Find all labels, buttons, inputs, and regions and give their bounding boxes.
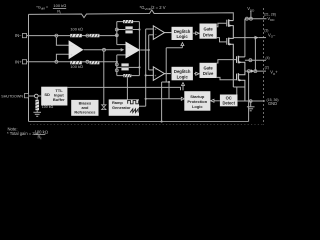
wire out+ feedback sense [162,82,169,122]
svg-text:100 kΩ: 100 kΩ [70,64,83,69]
wire bottom feedback rail [29,121,249,123]
svg-text:(4): (4) [266,56,270,60]
wire control riser to deglitch1 [166,46,182,99]
op-amp U1 input stage (filled) [69,40,84,59]
svg-text:VDD: VDD [247,6,255,12]
wire startup to deglitch2 arrow [182,86,184,91]
svg-text:−: − [70,43,73,48]
svg-text:Logic: Logic [192,104,203,109]
wire OC to startup + arrow [214,100,220,102]
boundary dashed bottom [30,124,264,126]
svg-text:SD: SD [44,92,50,97]
resistor R feedback top [123,20,133,23]
resistor rowC R1 [70,61,82,64]
icon sawtooth wave [130,109,138,113]
svg-text:100 kΩ: 100 kΩ [53,3,66,8]
arrowhead OUT- pin [255,36,259,40]
transistor Q1 high-side [227,19,234,37]
boundary dashed right [263,8,265,125]
block Startup Protection Logic [184,91,210,111]
wire OC sense bracket [233,87,245,95]
node circles feedback bottom riser [115,63,118,66]
arrowhead into U2 [121,48,125,51]
transistor Q3 high-side [237,56,245,71]
wire top feedback rail with notch and hop [29,10,234,21]
wire PVCC rail [245,11,267,57]
FET source arrows [229,24,242,81]
comparator C1 [153,26,171,40]
svg-text:+: + [70,52,73,57]
svg-text:GND: GND [268,101,277,106]
wire ramp to comparators [139,29,153,106]
svg-text:Logic: Logic [177,34,189,39]
resistor rowB R2 [90,34,100,37]
formula gain top-left [36,3,66,15]
resistor rowB R1 [70,34,82,37]
resistor SD pulldown [35,98,39,113]
inverter bubble SD [35,94,39,98]
ground symbol SD [33,112,41,116]
wire OC to GND pin [238,100,266,102]
svg-text:VO+: VO+ [270,70,278,76]
svg-text:Logic: Logic [177,74,189,79]
transistor Q2 low-side [227,38,234,87]
block Deglitch Logic 1 [172,27,193,40]
svg-text:Drive: Drive [203,32,214,37]
icon square wave [128,100,139,103]
wire bottom riser to OUT+ [248,71,250,121]
block Ramp Generator [109,99,139,115]
svg-text:100 kΩ: 100 kΩ [42,105,54,109]
svg-text:100 kΩ: 100 kΩ [70,27,83,32]
wire bias tap vertical from U1 output [103,51,105,104]
pin IN+ [22,60,26,64]
pin IN- [22,34,26,38]
wire left boundary vertical [28,14,30,121]
transistor Q4 low-side [237,71,245,101]
hourglass connector biases-ramp [102,105,106,107]
svg-text:+: + [154,28,156,32]
svg-text:+: + [154,74,156,78]
resistor R feedback bottom [123,74,131,77]
row C IN+ wires [27,61,117,63]
integrator feedback bottom loop [117,50,140,76]
svg-text:−: − [155,68,157,72]
wire U1 output [84,49,122,51]
svg-text:*Gdiff =: *Gdiff = [36,5,49,11]
svg-text:Drive: Drive [203,71,214,76]
block OC Detect [220,95,238,107]
svg-text:References: References [74,110,95,115]
svg-text:RI: RI [38,135,42,141]
junction dots [116,28,257,122]
block Deglitch Logic 2 [172,67,193,81]
wire OUT+ row [245,70,266,72]
block TTL Input Buffer [41,87,67,106]
svg-text:*GVDD/2 = 2 V: *GVDD/2 = 2 V [140,5,166,11]
svg-text:(2): (2) [265,66,269,70]
block Gate Drive 1 [200,24,217,39]
svg-text:Detect: Detect [222,100,235,105]
integrator feedback top loop [117,22,140,50]
arrow into startup from left [181,97,184,100]
wire OUT- row [233,38,266,72]
wire ramp reference drop [126,77,128,99]
resistor rowC R2 [90,61,100,64]
svg-text:SHUTDOWN: SHUTDOWN [1,94,23,98]
svg-text:VO−: VO− [268,32,276,38]
svg-text:Gate: Gate [203,26,213,31]
wires gate drive 1 to FETs [217,23,227,42]
svg-text:IN−: IN− [15,33,22,38]
svg-text:RI: RI [57,9,61,15]
row B IN- wires [27,35,117,37]
svg-text:Buffer: Buffer [53,97,65,102]
ground symbol [247,101,255,111]
wires into op-amp U1 inputs [56,37,68,60]
comparator C2 [153,67,171,81]
wire lower rail stub [245,59,266,61]
arrowhead OUT+ pin [251,69,255,73]
pin SHUTDOWN [24,94,28,98]
wire TTL buffer to startup [67,87,180,90]
svg-text:Gate: Gate [203,66,213,71]
block Gate Drive 2 [200,63,217,78]
capacitor C feedback top [125,26,132,29]
arrow Deglitch2 to GateDrive2 [196,72,199,75]
svg-text:−: − [155,33,157,37]
wire SD pin to buffer [29,95,35,97]
capacitor C feedback bottom [121,63,128,66]
node circles row B / C [55,34,89,63]
junction pad U1 output [103,48,106,51]
wire ramp to startup [146,98,182,100]
wires gate drive 2 to FETs [217,60,237,80]
block Biases and References [71,100,98,116]
svg-text:VDD: VDD [267,16,275,22]
svg-text:Generator: Generator [112,105,131,110]
svg-text:IN+: IN+ [15,59,22,64]
arrow Deglitch1 to GateDrive1 [196,32,199,35]
op-amp U2 integrator (filled) [126,42,141,59]
node circles feedback top riser [115,28,118,31]
wire U2 output to comparators [140,35,153,70]
